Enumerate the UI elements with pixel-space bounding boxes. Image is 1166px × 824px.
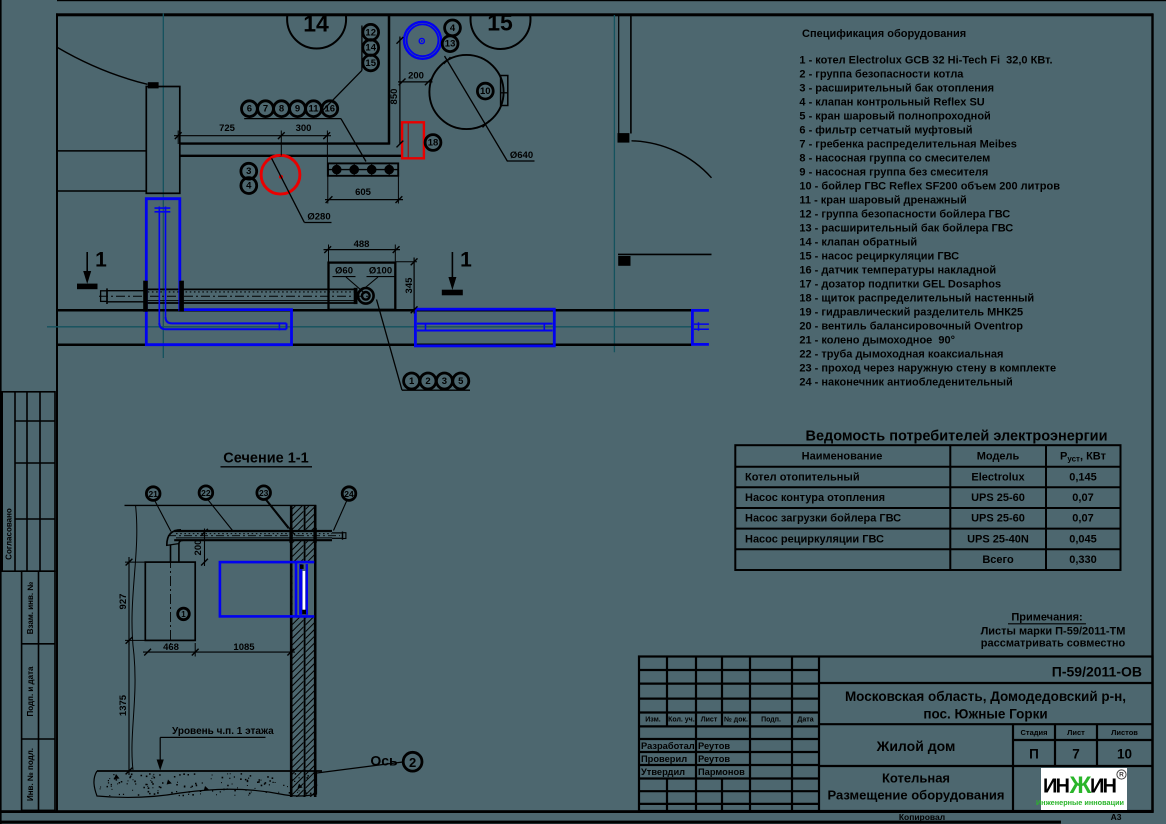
svg-text:Ведомость потребителей электро: Ведомость потребителей электроэнергии — [805, 429, 1107, 445]
wall right face — [314, 505, 317, 797]
svg-text:Ось: Ось — [370, 753, 398, 769]
callout 4 (lower) — [241, 178, 257, 194]
svg-text:22: 22 — [201, 488, 211, 498]
foundation triangles — [114, 774, 303, 791]
wall section hatch — [270, 400, 340, 824]
blue expansion tank circle — [404, 22, 441, 59]
svg-text:Ø100: Ø100 — [369, 265, 392, 276]
red board inner divider — [407, 123, 409, 157]
svg-text:8 - насосная группа со смесите: 8 - насосная группа со смесителем — [799, 153, 990, 165]
svg-text:15: 15 — [487, 10, 513, 36]
title block outer border — [639, 657, 1153, 812]
stamp header labels — [645, 715, 813, 723]
boiler (section) — [145, 562, 195, 640]
door arc top-left — [58, 48, 148, 85]
flue wall collar (item 23) — [289, 528, 292, 543]
section mark 1 right: base bar — [442, 290, 463, 296]
blue tank center mark — [419, 38, 424, 43]
callout 23 — [257, 486, 271, 500]
svg-text:2: 2 — [409, 755, 416, 770]
section mark 1 right: line — [451, 252, 453, 278]
svg-text:7: 7 — [263, 104, 268, 115]
svg-text:6 - фильтр сетчатый муфтовый: 6 - фильтр сетчатый муфтовый — [799, 125, 972, 137]
flue gap through wall — [290, 532, 317, 540]
sheet scan edge left — [0, 0, 2, 824]
radiator C bracket — [692, 310, 709, 344]
svg-text:21: 21 — [148, 489, 158, 499]
pipe tip rect (item 24) — [101, 291, 107, 302]
svg-text:Лист: Лист — [701, 716, 718, 723]
boiler footprint box (plan) — [329, 263, 396, 310]
leader O60 — [346, 277, 365, 294]
svg-text:Жилой дом: Жилой дом — [876, 738, 956, 754]
svg-text:300: 300 — [296, 123, 312, 134]
blue inner pipe elbow to horizontal band (radiator A) — [159, 317, 286, 329]
radiator B end dividers — [426, 323, 545, 331]
callout row shelf line — [244, 118, 341, 120]
pipe stub end cap — [106, 288, 108, 304]
section mark 1 left: base bar — [77, 284, 98, 290]
svg-text:14: 14 — [365, 43, 376, 54]
logo ИНЖИН — [1043, 772, 1117, 799]
svg-text:Копировал: Копировал — [899, 812, 945, 822]
svg-text:1: 1 — [409, 376, 415, 387]
leader 23 a — [265, 499, 288, 528]
manifold center line — [328, 169, 398, 171]
axis bubble 2 — [403, 752, 422, 771]
leader 21 — [155, 500, 172, 531]
svg-text:9 - насосная группа без смесит: 9 - насосная группа без смесителя — [799, 167, 988, 179]
manifold diamond ticks — [337, 163, 390, 177]
radiator A end box — [278, 322, 280, 330]
pipe wall collar right — [179, 281, 184, 312]
callout 21 — [146, 487, 160, 501]
left margin: lower stamp boxes — [22, 571, 55, 810]
red distribution board (item 18) — [402, 122, 424, 158]
left grid horizontals — [639, 669, 819, 671]
svg-text:Котел отопительный: Котел отопительный — [745, 472, 860, 484]
svg-text:2: 2 — [425, 376, 430, 387]
svg-text:Реутов: Реутов — [698, 741, 730, 751]
dim 345 (vertical) — [413, 258, 415, 314]
svg-text:Ø640: Ø640 — [510, 150, 533, 161]
svg-text:Московская область, Домодедовс: Московская область, Домодедовский р-н, — [845, 689, 1126, 704]
callout 4 (top) — [445, 20, 461, 36]
svg-text:Стадия: Стадия — [1020, 728, 1047, 737]
boiler axis dashline — [170, 558, 172, 645]
dim 725/300 line — [174, 135, 331, 137]
svg-text:7 - гребенка распределительная: 7 - гребенка распределительная Meibes — [799, 139, 1016, 151]
pipe end collar — [354, 288, 358, 304]
svg-text:15: 15 — [365, 58, 376, 69]
interior wall band horizontal — [180, 142, 390, 144]
dim 468 / 1085 — [143, 651, 295, 653]
svg-text:6: 6 — [247, 104, 252, 115]
window glass white strip — [303, 571, 306, 611]
blue inner pipe vertical pair — [159, 207, 165, 323]
stack leader diagonal — [316, 70, 362, 117]
svg-text:рассматривать совместно: рассматривать совместно — [981, 637, 1126, 649]
callout 24 — [342, 487, 356, 501]
svg-text:Модель: Модель — [977, 450, 1020, 462]
pipe wall collar left — [143, 281, 148, 312]
svg-text:5 - кран шаровый полнопроходно: 5 - кран шаровый полнопроходной — [799, 111, 990, 123]
svg-text:4: 4 — [450, 23, 456, 34]
right wall of room 15: axis-colored face — [613, 15, 615, 352]
logo R mark — [1117, 770, 1126, 779]
svg-text:Проверил: Проверил — [641, 754, 687, 764]
svg-text:Насос загрузки бойлера ГВС: Насос загрузки бойлера ГВС — [745, 513, 901, 525]
svg-text:Наименование: Наименование — [802, 450, 883, 462]
svg-text:Дата: Дата — [797, 716, 813, 723]
section mark 1 left: line — [86, 252, 88, 272]
radiator B inner band — [417, 324, 553, 331]
svg-text:Согласовано: Согласовано — [5, 508, 14, 560]
svg-text:15 - насос рециркуляции ГВС: 15 - насос рециркуляции ГВС — [799, 251, 959, 263]
callout stack 12 14 15 — [363, 24, 379, 40]
svg-text:605: 605 — [355, 187, 372, 198]
svg-text:Примечания:: Примечания: — [1011, 612, 1082, 624]
section mark 1 left: arrowhead — [83, 271, 91, 284]
svg-text:0,145: 0,145 — [1069, 472, 1097, 484]
frame top line — [56, 13, 1153, 16]
svg-text:10 - бойлер ГВС Reflex SF200 о: 10 - бойлер ГВС Reflex SF200 объем 200 л… — [799, 181, 1060, 193]
bottom exterior wall top line — [57, 309, 692, 312]
blue inner pipe top ticks — [155, 208, 171, 212]
door arc right — [632, 141, 712, 178]
shelf under 1235 — [402, 389, 470, 391]
flue tip outside — [332, 532, 343, 534]
svg-text:1 - котел Electrolux GCB 32 Hi: 1 - котел Electrolux GCB 32 Hi-Tech Fi 3… — [799, 55, 1052, 67]
svg-text:18: 18 — [428, 138, 439, 149]
tank side bracket — [501, 76, 508, 106]
svg-text:4: 4 — [246, 181, 252, 192]
pipe stub outside wall — [107, 290, 144, 292]
svg-text:8: 8 — [279, 104, 284, 115]
leader to O280 label — [272, 158, 305, 222]
svg-text:23 - проход через наружную сте: 23 - проход через наружную стену в компл… — [799, 363, 1056, 375]
svg-text:21 - колено дымоходное 90°: 21 - колено дымоходное 90° — [799, 335, 955, 347]
svg-text:12: 12 — [365, 27, 376, 38]
pipe inner line — [144, 300, 355, 302]
svg-text:Реутов: Реутов — [698, 754, 730, 764]
svg-text:пос. Южные Горки: пос. Южные Горки — [923, 707, 1047, 722]
right part lines — [819, 682, 1152, 684]
pipe center dash-dot — [99, 295, 369, 297]
svg-text:Насос контура отопления: Насос контура отопления — [745, 492, 885, 504]
dim 927 — [128, 557, 130, 645]
svg-text:1375: 1375 — [118, 694, 129, 716]
flue elbow down to boiler — [167, 530, 183, 563]
window frame bars in wall — [299, 564, 302, 615]
svg-text:Разработал: Разработал — [641, 741, 695, 751]
svg-text:22 - труба дымоходная коаксиал: 22 - труба дымоходная коаксиальная — [799, 349, 1003, 361]
svg-text:1085: 1085 — [233, 642, 255, 653]
leader boiler to 1235 — [377, 300, 403, 391]
flue horizontal pipe (section) — [174, 530, 332, 532]
callout row 6 7 8 9 11 16 — [242, 101, 258, 117]
svg-text:4 - клапан контрольный Reflex: 4 - клапан контрольный Reflex SU — [799, 97, 984, 109]
svg-text:Руст, КВт: Руст, КВт — [1060, 450, 1107, 463]
svg-text:927: 927 — [118, 594, 129, 610]
spec items 1-24 — [799, 55, 1060, 389]
axis line vertical (ось 2) — [162, 14, 164, 359]
svg-text:7: 7 — [1072, 746, 1080, 761]
axis leader Ось 2 — [313, 762, 403, 774]
svg-text:Листов: Листов — [1111, 728, 1138, 737]
svg-text:R: R — [1119, 772, 1124, 779]
svg-text:Взам. инв. №: Взам. инв. № — [26, 582, 35, 635]
window end marks — [300, 565, 304, 569]
svg-text:10: 10 — [1117, 746, 1132, 761]
foundation speckles — [100, 773, 318, 796]
svg-text:Лист: Лист — [1067, 728, 1085, 737]
svg-text:П-59/2011-ОВ: П-59/2011-ОВ — [1052, 664, 1142, 680]
svg-text:10: 10 — [480, 86, 491, 97]
svg-text:Ø280: Ø280 — [307, 211, 330, 222]
svg-text:0,045: 0,045 — [1069, 533, 1097, 545]
wall line right lower — [618, 253, 712, 255]
svg-text:16 - датчик температуры наклад: 16 - датчик температуры накладной — [799, 265, 996, 277]
wall middle layer line — [304, 505, 306, 797]
wall pier left (x146-180) — [146, 87, 180, 194]
axis line horizontal — [47, 326, 693, 328]
frame left line — [56, 13, 58, 811]
left margin: Согласовано block grid — [2, 392, 55, 571]
svg-text:1: 1 — [181, 610, 186, 619]
svg-text:Уровень ч.п. 1 этажа: Уровень ч.п. 1 этажа — [172, 726, 274, 737]
svg-text:345: 345 — [404, 277, 415, 294]
svg-text:Утвердил: Утвердил — [641, 767, 685, 777]
svg-text:UPS 25-40N: UPS 25-40N — [967, 533, 1029, 545]
svg-text:13: 13 — [445, 39, 456, 50]
svg-text:Инженерные инновации: Инженерные инновации — [1036, 798, 1124, 807]
callout row 1 2 3 5 — [404, 373, 420, 389]
frame right line — [1151, 13, 1153, 811]
svg-text:14 - клапан обратный: 14 - клапан обратный — [799, 237, 917, 249]
svg-text:23: 23 — [259, 488, 269, 498]
svg-text:0,330: 0,330 — [1069, 554, 1097, 566]
level arrow — [160, 736, 170, 738]
pipe dotted line — [144, 291, 355, 293]
frame bottom line — [1, 810, 1154, 813]
left grid verticals — [666, 657, 668, 727]
window lines through wall — [296, 561, 314, 564]
svg-text:Подп.: Подп. — [761, 716, 781, 723]
svg-text:Насос рециркуляции ГВС: Насос рециркуляции ГВС — [745, 533, 884, 545]
svg-text:Electrolux: Electrolux — [971, 472, 1025, 484]
leader shelf to manifold — [341, 119, 366, 162]
pipe end circle O60 — [362, 292, 370, 300]
red circle O280 — [261, 155, 300, 194]
wall left face — [290, 505, 293, 797]
svg-text:850: 850 — [389, 89, 400, 105]
room tag circle 15 — [471, 0, 531, 49]
ceiling line — [125, 504, 317, 506]
dim 200 (section) — [204, 529, 206, 567]
svg-text:А3: А3 — [1111, 812, 1122, 822]
pipe end circle O100 — [358, 288, 374, 304]
interior wall vertical x389 — [388, 14, 391, 145]
svg-text:12 - группа безопасности бойле: 12 - группа безопасности бойлера ГВС — [799, 209, 1010, 221]
manifold (гребенка) body — [328, 163, 398, 175]
dim 605 — [325, 199, 403, 201]
door jamb square right upper — [618, 133, 630, 143]
dim 488 — [324, 249, 401, 251]
svg-text:11 - кран шаровый дренажный: 11 - кран шаровый дренажный — [799, 195, 966, 207]
manifold diamonds — [332, 165, 394, 175]
svg-text:9: 9 — [295, 104, 300, 115]
svg-text:24 - наконечник антиобледените: 24 - наконечник антиобледенительный — [799, 377, 1012, 389]
stamp names — [641, 741, 745, 777]
svg-text:Сечение 1-1: Сечение 1-1 — [223, 451, 308, 467]
callout 18 — [425, 135, 441, 151]
svg-text:П: П — [1029, 746, 1039, 761]
table grid — [735, 445, 1120, 570]
svg-text:Размещение оборудования: Размещение оборудования — [827, 787, 1004, 802]
svg-text:1: 1 — [460, 249, 472, 272]
svg-text:Изм.: Изм. — [645, 716, 661, 723]
callout 13 — [442, 36, 458, 52]
svg-text:1: 1 — [95, 249, 107, 272]
svg-text:3: 3 — [246, 166, 251, 177]
svg-text:488: 488 — [354, 239, 370, 250]
stack leader vertical — [361, 26, 363, 71]
ground line — [97, 770, 322, 772]
svg-text:725: 725 — [219, 123, 236, 134]
radiator B outer rect — [415, 309, 554, 346]
leader 23 b — [266, 499, 295, 536]
door jamb square right lower — [618, 256, 630, 266]
svg-text:5: 5 — [458, 376, 464, 387]
foundation outline wavy — [94, 771, 317, 797]
boiler tank circle O640 (item 10) — [429, 55, 503, 129]
svg-text:20 - вентиль балансировочный O: 20 - вентиль балансировочный Oventrop — [799, 321, 1023, 333]
svg-text:Всего: Всего — [982, 554, 1014, 566]
dim 850 (vertical) — [399, 37, 401, 145]
diameter edge ticks — [444, 57, 451, 64]
radiator C middle detail — [694, 322, 709, 331]
svg-text:11: 11 — [308, 104, 319, 115]
svg-text:3 - расширительный бак отоплен: 3 - расширительный бак отопления — [799, 83, 994, 95]
chimney coax pipe (plan) outer lines — [144, 288, 355, 290]
callout 10 (in tank) — [477, 83, 493, 99]
svg-text:0,07: 0,07 — [1072, 513, 1093, 525]
svg-text:Инв. № подл.: Инв. № подл. — [26, 748, 35, 801]
dim 200 (plan) — [398, 81, 433, 83]
door jamb square top-left — [148, 82, 159, 88]
svg-text:ИН: ИН — [1043, 776, 1070, 798]
window gap through wall — [293, 563, 314, 616]
svg-text:ИН: ИН — [1090, 776, 1117, 798]
svg-text:13 - расширительный бак бойлер: 13 - расширительный бак бойлера ГВС — [799, 223, 1013, 235]
svg-text:Котельная: Котельная — [882, 770, 950, 785]
svg-text:200: 200 — [408, 70, 424, 81]
svg-text:Пармонов: Пармонов — [698, 767, 745, 777]
svg-text:17 - дозатор подпитки GEL Dosa: 17 - дозатор подпитки GEL Dosaphos — [799, 279, 1001, 291]
break line (left) — [132, 505, 137, 770]
svg-text:14: 14 — [303, 11, 329, 37]
section mark 1 right: arrowhead — [448, 277, 456, 290]
svg-text:18 - щиток распределительный н: 18 - щиток распределительный настенный — [799, 293, 1034, 305]
red circle center dot — [279, 175, 283, 179]
svg-text:3: 3 — [442, 376, 447, 387]
leader 22 — [208, 499, 233, 530]
svg-text:№ док.: № док. — [724, 715, 748, 723]
svg-text:UPS 25-60: UPS 25-60 — [971, 492, 1025, 504]
svg-text:24: 24 — [344, 489, 354, 499]
callout 1 (boiler) — [178, 608, 190, 620]
logo box — [1041, 768, 1127, 810]
callout 3 — [241, 163, 257, 179]
svg-text:UPS 25-60: UPS 25-60 — [971, 513, 1025, 525]
leader 24 — [334, 500, 348, 530]
sheet scan edge top right — [57, 0, 1166, 1]
dim 1375 — [128, 640, 130, 775]
svg-text:Ø60: Ø60 — [335, 265, 353, 276]
svg-text:Ж: Ж — [1069, 772, 1092, 799]
svg-text:Подп. и дата: Подп. и дата — [26, 666, 35, 716]
leader O100 — [360, 277, 378, 292]
svg-text:19 - гидравлический разделител: 19 - гидравлический разделитель МНК25 — [799, 307, 1023, 319]
svg-text:200: 200 — [193, 540, 204, 556]
bottom exterior wall bottom line — [57, 344, 692, 347]
blue window projection — [220, 562, 296, 616]
callout 22 — [199, 486, 213, 500]
sheet bottom edge line — [0, 821, 1061, 824]
blue L-duct outline — [146, 199, 291, 345]
svg-text:468: 468 — [163, 642, 179, 653]
svg-text:Спецификация оборудования: Спецификация оборудования — [802, 28, 966, 40]
svg-text:16: 16 — [325, 104, 336, 115]
tank diameter line — [445, 56, 508, 162]
svg-text:0,07: 0,07 — [1072, 492, 1093, 504]
wall opening lines to left frame — [57, 150, 146, 152]
svg-text:Кол. уч.: Кол. уч. — [668, 716, 695, 723]
room tag circle 14 — [287, 0, 346, 49]
svg-text:Листы марки П-59/2011-ТМ: Листы марки П-59/2011-ТМ — [981, 625, 1126, 637]
right wall inner faces — [618, 15, 620, 134]
svg-text:2 - группа безопасности котла: 2 - группа безопасности котла — [799, 69, 964, 81]
